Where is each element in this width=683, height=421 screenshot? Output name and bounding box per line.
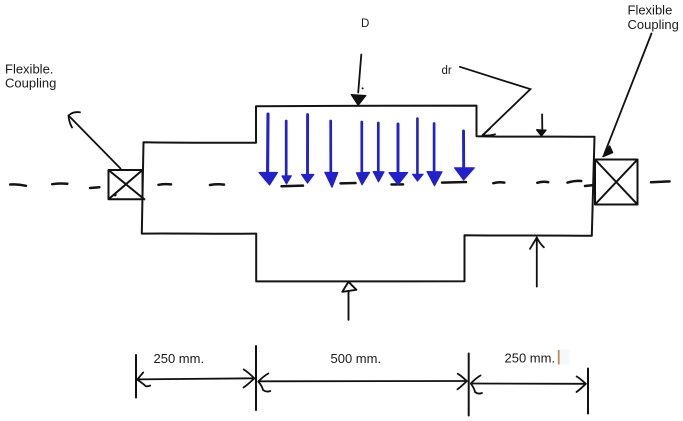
distributed load arrows (blue): [268, 114, 464, 176]
svg-text:250 mm.: 250 mm.: [505, 351, 556, 366]
leader arrow from left coupling: [69, 112, 121, 168]
centerline (dashed axis): [10, 181, 669, 188]
dimension line 500 mm: [258, 374, 467, 392]
svg-text:dr: dr: [442, 65, 452, 77]
svg-text:Coupling: Coupling: [5, 76, 56, 91]
right coupling box X2: [595, 160, 638, 205]
blue arrowheads: [259, 168, 474, 188]
load arrow D (black): [358, 55, 361, 93]
small down arrow on right segment: [541, 114, 543, 129]
up arrow under right segment: [530, 238, 544, 287]
faint selection highlight: [560, 350, 570, 365]
svg-text:250 mm.: 250 mm.: [154, 351, 205, 366]
open up arrow under middle segment: [342, 282, 356, 320]
svg-text:D: D: [361, 18, 369, 30]
svg-text:Flexible: Flexible: [628, 3, 673, 18]
svg-text:Coupling: Coupling: [628, 17, 679, 32]
left coupling box X1: [109, 170, 146, 200]
leader arrow dr: [460, 67, 531, 136]
leader arrow from right coupling label: [605, 34, 652, 154]
dimension line 250 mm (left): [137, 370, 254, 388]
svg-text:500 mm.: 500 mm.: [331, 351, 382, 366]
text cursor (tan): [558, 350, 560, 365]
dimension extension lines: [136, 346, 588, 416]
svg-text:Flexible.: Flexible.: [5, 62, 53, 77]
ink dot on left coupling diagonal: [113, 193, 116, 196]
dimension line 250 mm (right): [471, 376, 586, 394]
shaft stepped outline: [142, 106, 595, 282]
